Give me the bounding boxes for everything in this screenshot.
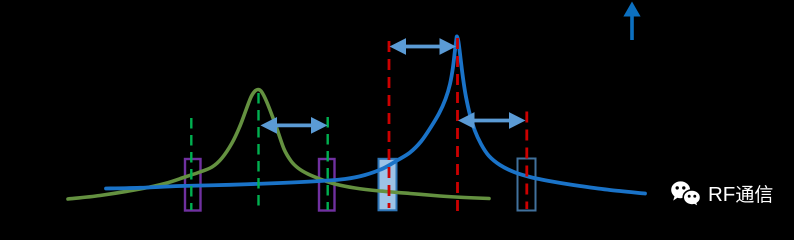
double arrow top between red lines [390,38,457,55]
double arrow between green lines [261,117,328,134]
purple rectangle right [319,159,335,211]
red dashed line left [388,41,391,208]
blue outlined rectangle [518,159,536,211]
wechat logo big bubble [671,181,690,200]
green dashed line left [190,118,192,210]
purple rectangle left [185,159,201,211]
green resonance curve [68,90,489,200]
red dashed line center [456,38,459,211]
blue resonance curve [106,36,645,193]
wechat account name text [708,186,794,204]
wechat logo small bubble [683,190,700,207]
green dashed line right [327,117,329,210]
red dashed line right [525,112,528,210]
up arrow [623,2,640,41]
blue filled rectangle [379,159,397,211]
green dashed line center [257,93,259,210]
double arrow right between red lines [458,112,526,129]
